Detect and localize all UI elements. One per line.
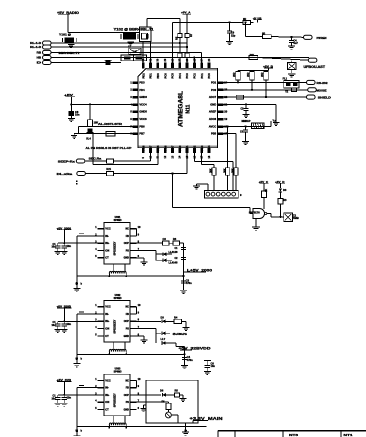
capacitor C_b [63, 321, 65, 323]
MCU U101 ATMEGA8L body [138, 69, 217, 148]
svg-text:VCC6: VCC6 [139, 117, 147, 121]
port PWREN [304, 35, 313, 39]
wire [77, 387, 98, 389]
svg-text:PS: PS [126, 401, 130, 404]
ground [181, 365, 188, 367]
ground [141, 339, 148, 341]
pin 13 PD7 [171, 148, 174, 154]
wire [147, 17, 180, 19]
ground [61, 251, 68, 253]
wire row5 [52, 62, 122, 64]
ground [73, 435, 80, 437]
pull-up resistor R107 [186, 14, 188, 33]
wire [76, 388, 78, 436]
svg-text:2K2: 2K2 [247, 72, 250, 77]
port P101 RL-1-D [43, 41, 52, 45]
IC U302 body [104, 301, 130, 343]
svg-text:PB7: PB7 [149, 145, 153, 151]
wire row3 [52, 51, 202, 53]
pin 4 [98, 328, 105, 330]
resistor R104 [106, 132, 115, 136]
ground [73, 288, 80, 290]
capacitor C_b [63, 243, 65, 245]
ground [55, 402, 62, 404]
svg-text:COP: COP [124, 242, 130, 245]
resistor R303 [174, 319, 182, 323]
svg-text:BBR43BL.71: BBR43BL.71 [59, 51, 80, 55]
resistor R111 [243, 20, 251, 24]
IC U303 body [104, 374, 130, 416]
pin 28 PC5 [171, 63, 174, 69]
svg-text:PB4: PB4 [207, 145, 211, 151]
svg-text:D6: D6 [160, 389, 164, 393]
pin 10 [130, 306, 137, 308]
pin 7 PB6 [133, 125, 139, 128]
resistor R109 74K [249, 56, 258, 60]
wire [172, 174, 174, 208]
ground [288, 45, 295, 47]
node junction [75, 429, 78, 432]
pin 24 PD1 [217, 81, 223, 84]
svg-text:VCC: VCC [105, 305, 111, 309]
svg-text:FB: FB [126, 235, 129, 238]
bus wire [77, 353, 185, 355]
svg-text:FB: FB [126, 313, 129, 316]
diode D303 [162, 320, 166, 324]
svg-text:30K: 30K [210, 168, 213, 173]
wire [268, 68, 270, 70]
resistor on SHIELD row [236, 95, 243, 99]
wire [77, 313, 98, 315]
ground [204, 371, 211, 373]
wire [63, 382, 65, 395]
svg-text:D3: D3 [283, 188, 287, 192]
port P105 D [43, 60, 52, 64]
diode D305 [162, 341, 166, 345]
pin 8 [130, 394, 137, 396]
pin 25 PC2 [193, 63, 196, 69]
transformer T U303 [113, 416, 115, 423]
TVS Z102 SMB [284, 213, 293, 222]
svg-text:FB: FB [126, 387, 129, 390]
svg-text:IN-: IN- [105, 234, 109, 238]
capacitor C_c [79, 384, 84, 386]
ground [243, 114, 250, 116]
svg-text:C3: C3 [163, 237, 167, 241]
svg-text:IN+: IN+ [105, 241, 110, 245]
svg-text:PC4: PC4 [178, 73, 182, 79]
port RS-232 [307, 80, 316, 84]
node [245, 103, 247, 105]
svg-text:CT: CT [105, 407, 109, 411]
svg-text:PC5: PC5 [171, 73, 175, 79]
wire [58, 394, 98, 396]
svg-text:PD1: PD1 [149, 73, 153, 79]
node junction [75, 357, 78, 360]
svg-text:NC: NC [125, 379, 129, 382]
capacitor C_a [57, 395, 59, 397]
wire [150, 153, 152, 161]
wire [275, 104, 277, 122]
capacitor C_a [57, 243, 59, 245]
svg-text:R3: R3 [283, 198, 287, 202]
svg-text:PC3: PC3 [185, 73, 189, 79]
svg-text:PC2: PC2 [193, 73, 197, 79]
svg-text:ON: ON [105, 327, 109, 331]
pin 16 PB2 [193, 148, 196, 154]
svg-text:10n: 10n [211, 364, 216, 368]
svg-text:NC: NC [125, 306, 129, 309]
wire [137, 242, 163, 244]
node [228, 21, 230, 23]
port P104 HB [43, 55, 52, 59]
capacitor C108 [69, 111, 74, 116]
svg-text:ADC7: ADC7 [209, 95, 217, 99]
capacitor C113 [245, 126, 247, 129]
wire to transceiver [173, 206, 251, 208]
pin 26 PC3 [186, 63, 189, 69]
svg-text:SMB: SMB [293, 216, 299, 220]
capacitor C111 [291, 37, 293, 40]
ground [68, 118, 75, 120]
feedback box [146, 380, 198, 423]
pin 11 PD5 [156, 148, 159, 154]
svg-text:1K: 1K [265, 189, 268, 192]
port SHIELD [307, 95, 316, 99]
svg-text:D3: D3 [161, 315, 165, 319]
wire [68, 32, 140, 34]
wire [58, 320, 98, 322]
svg-text:SHIELD: SHIELD [318, 96, 331, 100]
wire [76, 314, 78, 363]
node [245, 125, 247, 127]
wire [185, 423, 187, 431]
ground [183, 327, 190, 329]
svg-text:30K: 30K [223, 168, 226, 173]
resistor R302 [173, 241, 180, 245]
resistor R112 [263, 35, 272, 39]
diode D103 [279, 183, 281, 188]
capacitor C301 [181, 246, 186, 248]
title block border [218, 430, 366, 432]
ground [61, 402, 68, 404]
pin 5 [98, 409, 105, 411]
capacitor C303 [181, 280, 186, 282]
node [290, 36, 292, 38]
wire [85, 173, 106, 175]
wire [137, 250, 156, 252]
svg-text:GND5: GND5 [139, 110, 147, 114]
pin 23 PC0 [217, 89, 223, 92]
pin 5 GND5 [133, 111, 139, 114]
pin 2 [98, 235, 105, 237]
pull-up resistor R114 [251, 70, 253, 71]
ground [73, 134, 75, 136]
wire [70, 97, 72, 111]
pin 29 PC6 [164, 63, 167, 69]
pin 3 [98, 394, 105, 396]
pin 18 AVCC [217, 125, 223, 128]
resistor R106 [178, 53, 182, 57]
wire [63, 230, 65, 243]
wire [186, 153, 188, 174]
pin 8 PB7 [133, 133, 139, 136]
svg-text:HB: HB [37, 56, 42, 60]
ground [273, 122, 280, 124]
svg-text:DL.xRa: DL.xRa [57, 172, 73, 176]
pin 8 [130, 320, 137, 322]
svg-text:LL4148: LL4148 [169, 260, 178, 264]
resistor R120 [106, 159, 113, 163]
ground [226, 40, 233, 42]
node [244, 21, 246, 23]
inductor L101 [129, 48, 141, 54]
pin 5 [98, 257, 105, 259]
capacitor C304 [182, 357, 187, 359]
capacitor C112 [245, 104, 247, 108]
pin 20 AREF [217, 111, 223, 114]
node [193, 56, 195, 58]
capacitor C105 [106, 60, 111, 65]
svg-text:PB1: PB1 [185, 145, 189, 151]
svg-text:ATMEGA8L: ATMEGA8L [179, 91, 185, 127]
pin 4 [98, 250, 105, 252]
svg-text:R3: R3 [173, 237, 177, 241]
wire [137, 401, 169, 403]
svg-text:RL-1-D: RL-1-D [30, 45, 41, 49]
wire TXD [223, 81, 306, 83]
svg-text:Y101 @: Y101 @ [59, 33, 71, 37]
port UFBOUAST [308, 58, 317, 62]
svg-text:LL?: LL? [161, 337, 166, 341]
svg-text:22p: 22p [231, 34, 236, 37]
pin 3 [98, 320, 105, 322]
node [108, 427, 110, 429]
svg-text:ON: ON [105, 248, 109, 252]
svg-text:+3.3V_MAIN: +3.3V_MAIN [190, 416, 224, 422]
wire pin1-pin2 link [136, 307, 138, 314]
resistor R118 [234, 168, 238, 176]
svg-text:30K: 30K [232, 168, 235, 173]
wire [171, 414, 178, 416]
svg-text:VCC: VCC [105, 378, 111, 382]
port MOUSE [308, 88, 317, 92]
svg-text:ON: ON [105, 400, 109, 404]
svg-text:0R: 0R [243, 18, 246, 21]
pin 31 PD1 [149, 63, 152, 69]
svg-text:PB7: PB7 [139, 132, 145, 136]
resistor R306 [167, 402, 169, 403]
svg-text:RL-1-D: RL-1-D [30, 41, 41, 45]
svg-text:IN+: IN+ [105, 393, 110, 397]
node [183, 353, 185, 355]
svg-text:PD4: PD4 [139, 88, 145, 92]
pin 19 ADC6 [217, 118, 223, 121]
resistor R108 [185, 53, 189, 57]
pin 6 [130, 335, 137, 337]
svg-text:PB5: PB5 [211, 132, 217, 136]
pin 23 PC0 [208, 63, 211, 69]
pin 9 [130, 313, 137, 315]
port P102 RL-1-D [43, 45, 52, 49]
diode D306 [162, 393, 166, 397]
resistor R121 [106, 171, 113, 175]
diode D302 LL4148 [156, 259, 163, 261]
svg-text:IN-: IN- [105, 312, 109, 316]
wire [76, 236, 78, 288]
svg-text:2K2: 2K2 [261, 72, 264, 77]
suppressor Z101 [291, 61, 293, 63]
svg-text:R4: R4 [174, 315, 178, 319]
pin 15 PB1 [186, 148, 189, 154]
capacitor C_b [63, 395, 65, 397]
svg-text:SEC.Ra: SEC.Ra [89, 157, 102, 161]
pin 10 [130, 379, 137, 381]
ground [68, 43, 75, 45]
svg-text:10u: 10u [51, 246, 56, 249]
pin 5 [98, 335, 105, 337]
pin 6 [130, 257, 137, 259]
port DL-Rx [77, 171, 86, 175]
svg-text:ADC6: ADC6 [209, 117, 217, 121]
node marks [76, 181, 78, 182]
capacitor C_c [79, 233, 84, 235]
svg-text:470n: 470n [187, 358, 193, 362]
node junction [75, 282, 78, 285]
wire row4 [52, 57, 310, 59]
ground [127, 41, 134, 43]
wire [114, 173, 188, 175]
wire [184, 347, 186, 366]
ground [255, 219, 257, 227]
wire pin1-pin2 link [136, 380, 138, 387]
capacitor C_c [79, 311, 84, 313]
svg-text:SP3232EEY: SP3232EEY [114, 393, 117, 407]
pin 2 [98, 387, 105, 389]
svg-text:PC6: PC6 [163, 73, 167, 79]
wire [201, 153, 203, 165]
svg-text:PB3: PB3 [200, 145, 204, 151]
ground [207, 184, 209, 190]
svg-text:4B+U88+PG: 4B+U88+PG [173, 333, 187, 336]
svg-text:FL1: FL1 [283, 78, 288, 81]
capacitor C306 top [204, 360, 211, 362]
wire tail [270, 121, 272, 127]
svg-text:COP: COP [124, 320, 130, 323]
wire AVCC row [223, 125, 271, 127]
resistor R116 [212, 168, 216, 176]
svg-text:PD6: PD6 [163, 145, 167, 151]
pin 9 [130, 235, 137, 237]
wire row1 [52, 42, 188, 44]
svg-text:PB2: PB2 [193, 145, 197, 151]
svg-text:PD3: PD3 [139, 80, 145, 84]
pin 17 PB5 [217, 133, 223, 136]
pin 32 PD2 [142, 63, 145, 69]
node [182, 275, 184, 277]
node [186, 46, 188, 48]
resistor R122 [263, 183, 265, 191]
wire RXD [223, 89, 307, 91]
pin 7 [130, 328, 137, 330]
node [184, 429, 187, 432]
pin 9 PB6 [142, 148, 145, 154]
wire [244, 22, 246, 36]
svg-text:UFBOU.AST: UFBOU.AST [304, 65, 326, 69]
svg-text:R5: R5 [175, 389, 179, 393]
wire [78, 126, 80, 133]
wire [137, 257, 144, 259]
node [63, 242, 65, 244]
pin 3 GND3 [133, 96, 139, 99]
node [125, 353, 127, 355]
transformer T U301 [113, 264, 115, 271]
svg-text:PC0: PC0 [207, 73, 211, 79]
svg-text:MMNAP: MMNAP [241, 120, 250, 123]
pin 2 [98, 313, 105, 315]
svg-text:AL.RST/.STR: AL.RST/.STR [98, 122, 122, 126]
ground stub [144, 404, 147, 406]
wire [74, 133, 133, 135]
pin 2 PD4 [133, 89, 139, 92]
pin 6 VCC6 [133, 118, 139, 121]
capacitor C302 [181, 256, 186, 258]
pin 18 PB4 [208, 148, 211, 154]
bus wire [77, 275, 184, 277]
node [171, 172, 173, 174]
bus wire [77, 426, 207, 428]
diode D102 [88, 128, 93, 132]
wire [114, 160, 151, 162]
wire [193, 153, 195, 162]
pin 1 [98, 228, 105, 230]
pin 1 [98, 306, 105, 308]
node [108, 353, 110, 355]
svg-text:10n: 10n [67, 396, 72, 400]
wire VCC to pin4 [71, 103, 132, 105]
svg-text:PS: PS [126, 328, 130, 331]
svg-text:IN-: IN- [105, 386, 109, 390]
svg-text:74K: 74K [250, 54, 255, 57]
svg-text:SP8M3: SP8M3 [114, 297, 123, 300]
pull-up resistor R105 [179, 18, 181, 33]
node [70, 103, 72, 105]
svg-text:VCC: VCC [105, 227, 111, 231]
svg-text:D: D [37, 61, 42, 65]
IC U301 body [104, 223, 130, 265]
ISP header J102 [204, 190, 238, 198]
svg-text:PD2: PD2 [141, 73, 145, 79]
ground [55, 251, 62, 253]
svg-text:AREF: AREF [209, 110, 217, 114]
svg-text:CT: CT [105, 334, 109, 338]
wire [70, 116, 72, 118]
pin 14 PB0 [178, 148, 181, 154]
svg-text:CT: CT [105, 256, 109, 260]
svg-text:SP8M3: SP8M3 [114, 371, 123, 374]
wire [67, 14, 69, 32]
varistor RV101 [252, 123, 264, 129]
node [279, 216, 281, 218]
wire PB5 row [223, 133, 236, 135]
pin 12 PD6 [164, 148, 167, 154]
pin 7 [130, 401, 137, 403]
svg-text:AL PB RSRLS IS RST PLL-UP: AL PB RSRLS IS RST PLL-UP [86, 146, 132, 150]
svg-text:0R: 0R [262, 32, 265, 35]
svg-text:GND: GND [124, 335, 130, 338]
svg-text:10n: 10n [67, 244, 72, 248]
wire [166, 394, 175, 396]
